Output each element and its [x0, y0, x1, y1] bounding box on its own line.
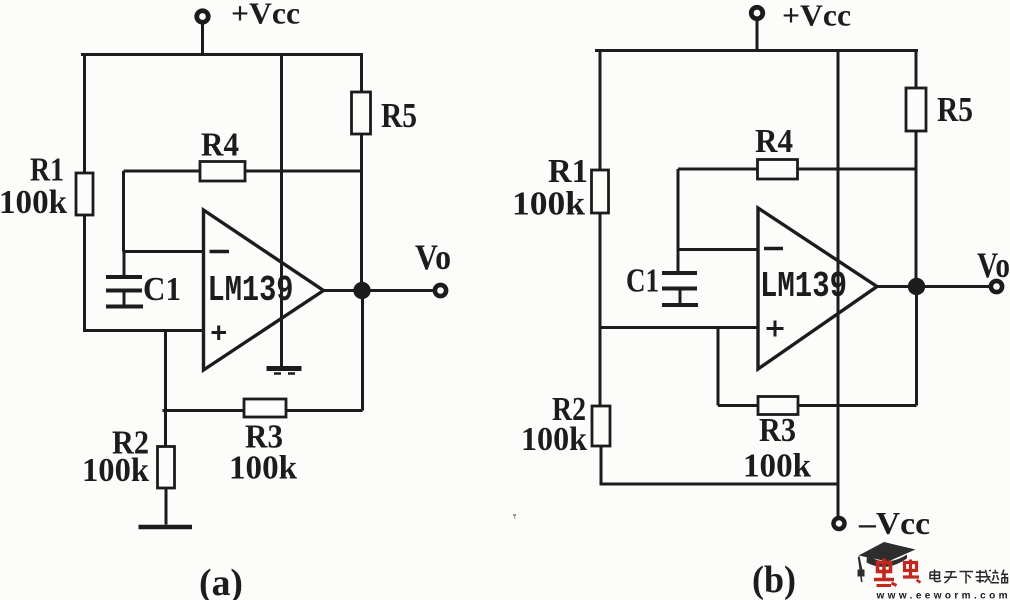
wire output (a): [324, 289, 434, 292]
svg-text:LM139: LM139: [760, 266, 847, 307]
label 100k of R2 (a): [82, 452, 149, 489]
wire R4 branch vertical (a): [122, 171, 125, 252]
svg-text:R5: R5: [381, 96, 417, 135]
node output junction (a): [353, 282, 370, 299]
op-amp U2 triangle (b): [758, 208, 877, 369]
wire R2 branch lower (a): [164, 411, 167, 448]
wire output to feedback (a): [361, 291, 364, 411]
wire inverting input (a): [124, 250, 205, 253]
svg-text:C1: C1: [143, 271, 181, 308]
wire R4 horizontal (b): [678, 168, 916, 171]
op-amp inverting input dash (b): [764, 247, 783, 251]
wire inverting input (b): [678, 248, 758, 251]
Vo terminal (a): [435, 285, 446, 296]
resistor R1 (a): [76, 173, 93, 215]
wire output (b): [877, 285, 990, 288]
wire left rail bottom to -Vcc (b): [601, 446, 840, 484]
resistor R2 (b): [592, 406, 610, 446]
op-amp noninverting plus (b): [767, 321, 784, 337]
label R2 (a): [112, 425, 149, 462]
label 100k of R1 (a): [0, 184, 67, 221]
svg-text:100k: 100k: [229, 450, 297, 487]
+Vcc terminal (b): [751, 7, 763, 52]
svg-text:100k: 100k: [521, 421, 587, 458]
wire R2 to ground (a): [165, 488, 168, 525]
label C1 (b): [626, 263, 659, 300]
label R3 (b): [759, 412, 796, 449]
svg-text:R4: R4: [755, 123, 793, 160]
label R5 (b): [937, 90, 973, 129]
label C1 (a): [143, 271, 181, 308]
watermark bug character 1: [874, 559, 897, 586]
wire left rail upper (a): [83, 53, 86, 174]
label +Vcc (a): [231, 0, 300, 31]
resistor R2 (a): [158, 447, 175, 489]
svg-text:R1: R1: [30, 152, 64, 189]
svg-text:+Vcc: +Vcc: [782, 0, 851, 33]
svg-text:Vo: Vo: [977, 245, 1010, 285]
watermark bug character 2: [903, 560, 921, 583]
svg-text:R1: R1: [548, 153, 588, 190]
label R4 (a): [201, 127, 239, 164]
wire R4 horizontal (a): [124, 170, 362, 173]
wire left rail middle (b): [599, 213, 602, 407]
label R1 (b): [548, 153, 588, 190]
svg-text:Vo: Vo: [415, 237, 451, 277]
svg-text:LM139: LM139: [208, 270, 294, 311]
label 100k of R1 (b): [512, 186, 585, 223]
svg-text:100k: 100k: [82, 452, 149, 489]
Vo terminal (b): [991, 281, 1002, 292]
label 100k of R3 (b): [743, 448, 811, 485]
svg-text:100k: 100k: [743, 448, 811, 485]
svg-text:R3: R3: [759, 412, 796, 449]
resistor R5 (a): [352, 92, 371, 134]
label LM139 (b): [760, 266, 847, 307]
resistor R4 (a): [200, 162, 245, 182]
label R4 (b): [755, 123, 793, 160]
wire top rail (b): [595, 49, 918, 52]
wire output to feedback (b): [915, 287, 918, 406]
watermark graduation cap: [858, 542, 916, 582]
speck artifact: [513, 514, 516, 519]
label R2 (b): [552, 391, 586, 428]
wire R5 branch (a): [360, 53, 363, 291]
op-amp inverting input dash (a): [210, 250, 230, 254]
resistor R1 (b): [592, 170, 609, 213]
capacitor C1 (a): [106, 252, 143, 307]
label 100k of R2 (b): [521, 421, 587, 458]
-Vcc terminal (b): [834, 518, 845, 529]
svg-text:R4: R4: [201, 127, 239, 164]
wire R4 branch vertical (b): [677, 169, 680, 250]
svg-text:R5: R5: [937, 90, 973, 129]
wire left rail lower + noninverting input wire (a): [85, 215, 206, 331]
label Vo (a): [415, 237, 451, 277]
wire R2 branch upper (a): [164, 331, 167, 411]
ground below op-amp (a): [267, 369, 302, 374]
ground below R2 (a): [139, 525, 193, 530]
watermark url: [876, 591, 1008, 600]
resistor R5 (b): [906, 88, 926, 131]
svg-text:www.eeworm.com: www.eeworm.com: [876, 591, 1008, 600]
label +Vcc (b): [782, 0, 851, 33]
wire middle supply branch (b): [837, 49, 840, 517]
label R1 (a): [30, 152, 64, 189]
wire feedback bottom (a): [163, 409, 363, 412]
+Vcc terminal (a): [197, 11, 209, 56]
wire feedback R3 horizontal (b): [718, 404, 917, 407]
label -Vcc (b): [858, 505, 930, 541]
resistor R4 (b): [758, 160, 798, 180]
label (a): [199, 562, 243, 600]
resistor R3 (a): [244, 399, 286, 417]
node output junction (b): [908, 278, 925, 295]
wire middle supply branch (a): [280, 53, 283, 366]
watermark site name characters: [930, 570, 1008, 584]
capacitor C1 (b): [662, 250, 698, 306]
label R3 (a): [245, 419, 283, 456]
wire left rail upper (b): [599, 49, 602, 171]
resistor R3 (b): [758, 397, 798, 415]
wire top rail (a): [81, 53, 363, 56]
label (b): [752, 559, 796, 600]
label LM139 (a): [208, 270, 294, 311]
svg-text:C1: C1: [626, 263, 659, 300]
svg-text:–Vcc: –Vcc: [858, 505, 930, 541]
svg-text:(a): (a): [199, 562, 243, 600]
label Vo (b): [977, 245, 1010, 285]
op-amp noninverting plus (a): [212, 326, 227, 341]
label R5 (a): [381, 96, 417, 135]
label 100k of R3 (a): [229, 450, 297, 487]
op-amp U1 triangle (a): [204, 210, 324, 370]
svg-text:100k: 100k: [0, 184, 67, 221]
svg-text:(b): (b): [752, 559, 796, 600]
svg-text:+Vcc: +Vcc: [231, 0, 300, 31]
wire R5 branch (b): [915, 49, 918, 287]
svg-text:100k: 100k: [512, 186, 585, 223]
wire R3 left riser (b): [717, 328, 720, 406]
wire noninverting input (b): [600, 326, 759, 329]
